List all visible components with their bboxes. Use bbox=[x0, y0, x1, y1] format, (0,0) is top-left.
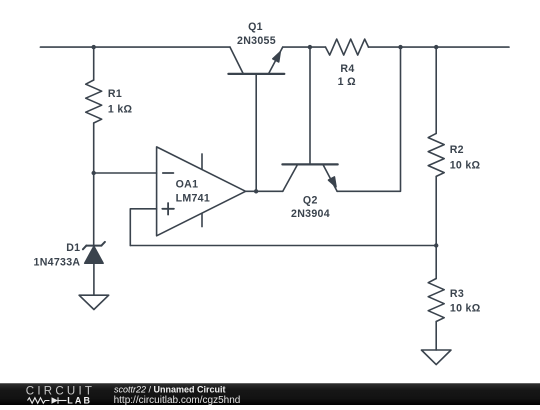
logo schematic doodle bbox=[28, 397, 67, 403]
wire R2 bottom lead bbox=[435, 177, 437, 246]
svg-text:2N3904: 2N3904 bbox=[291, 208, 330, 220]
wire to op-amp inverting input bbox=[94, 172, 157, 174]
wire Q2 emitter return bbox=[337, 47, 400, 191]
label R1 value bbox=[108, 88, 133, 115]
logo CircuitLab wordmark bbox=[26, 385, 95, 405]
node dot Q2 base junction bbox=[308, 45, 312, 49]
svg-text:2N3055: 2N3055 bbox=[237, 35, 276, 47]
node dot op-amp output bbox=[254, 189, 258, 193]
op-amp OA1 bbox=[157, 147, 246, 236]
wire Q1 base vertical bbox=[255, 74, 257, 191]
svg-text:10 kΩ: 10 kΩ bbox=[450, 159, 481, 171]
label OA1 value bbox=[176, 178, 210, 204]
wire op-amp output bbox=[246, 190, 283, 192]
node dot R2 top junction bbox=[434, 45, 438, 49]
label Q1 value bbox=[237, 21, 276, 47]
svg-text:1N4733A: 1N4733A bbox=[34, 256, 81, 268]
wire top rail right bbox=[401, 46, 510, 48]
wire R4 right lead bbox=[369, 46, 401, 48]
svg-text:R3: R3 bbox=[450, 288, 464, 300]
transistor Q1 bbox=[228, 47, 284, 74]
node dot Q2 emitter junction bbox=[398, 45, 402, 49]
label Q2 value bbox=[291, 194, 330, 220]
svg-text:1 Ω: 1 Ω bbox=[338, 76, 356, 88]
ground right bbox=[421, 350, 451, 365]
svg-text:R2: R2 bbox=[450, 144, 464, 156]
label R3 value bbox=[450, 288, 481, 315]
svg-text:R4: R4 bbox=[340, 63, 354, 75]
svg-text:D1: D1 bbox=[66, 242, 80, 254]
svg-text:Q1: Q1 bbox=[248, 21, 263, 33]
svg-text:LAB: LAB bbox=[67, 396, 92, 405]
resistor R4 bbox=[326, 39, 369, 55]
svg-text:scottr22 / Unnamed Circuit: scottr22 / Unnamed Circuit bbox=[114, 385, 226, 395]
resistor R3 bbox=[428, 279, 444, 322]
transistor Q2 bbox=[282, 164, 337, 191]
wire R1 top lead bbox=[93, 47, 95, 80]
wire op-amp feedback to non-inverting input bbox=[130, 209, 156, 246]
node dot divider junction bbox=[434, 243, 438, 247]
wire Q2 base vertical bbox=[309, 47, 311, 164]
footer title text bbox=[114, 385, 241, 406]
ground left bbox=[79, 295, 109, 309]
footer bar bbox=[0, 383, 540, 405]
wire D1 anode lead bbox=[93, 263, 95, 295]
svg-text:OA1: OA1 bbox=[176, 178, 199, 190]
label D1 value bbox=[34, 242, 81, 268]
diode D1 zener bbox=[83, 242, 105, 263]
node dot R1 top junction bbox=[92, 45, 96, 49]
wire bottom feedback rail bbox=[130, 245, 436, 247]
node dot op-amp minus junction bbox=[92, 171, 96, 175]
svg-text:R1: R1 bbox=[108, 88, 122, 100]
wire R1 bottom lead bbox=[93, 123, 95, 173]
wire top rail left bbox=[40, 46, 230, 48]
svg-text:Q2: Q2 bbox=[303, 194, 318, 206]
wire R3 top lead bbox=[435, 246, 437, 279]
resistor R1 bbox=[86, 80, 102, 123]
wire D1 cathode lead bbox=[93, 173, 95, 246]
svg-text:1 kΩ: 1 kΩ bbox=[108, 104, 133, 116]
label R2 value bbox=[450, 144, 481, 171]
svg-text:http://circuitlab.com/cgz5hnd: http://circuitlab.com/cgz5hnd bbox=[114, 395, 241, 405]
wire R2 top lead bbox=[435, 47, 437, 133]
wire Q1 emitter to R4 bbox=[283, 46, 326, 48]
label R4 value bbox=[338, 63, 356, 88]
wire R3 bottom lead bbox=[435, 322, 437, 351]
svg-text:10 kΩ: 10 kΩ bbox=[450, 303, 481, 315]
svg-text:LM741: LM741 bbox=[176, 193, 210, 205]
resistor R2 bbox=[428, 133, 444, 176]
